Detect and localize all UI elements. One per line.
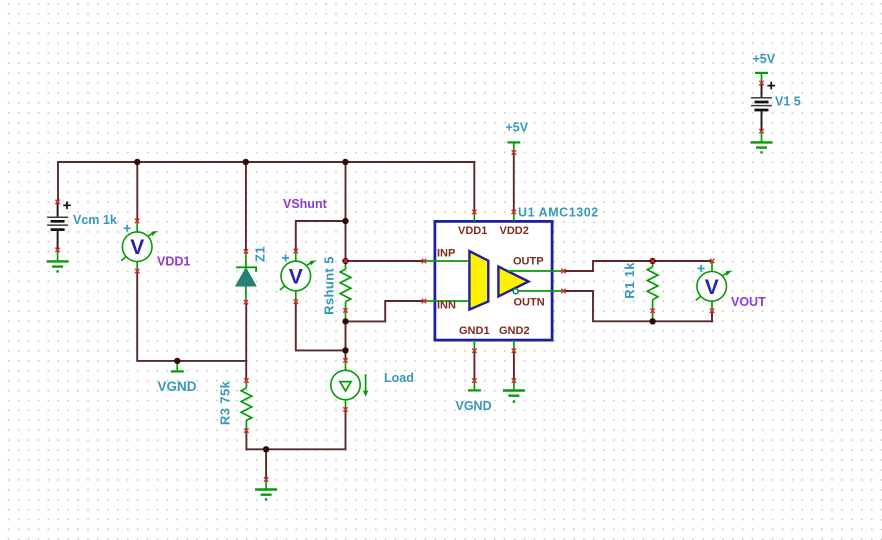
node VGND tap	[174, 358, 180, 364]
svg-text:VGND: VGND	[158, 379, 197, 394]
svg-text:R3 75k: R3 75k	[218, 380, 233, 425]
wire rail to Z1	[245, 162, 247, 251]
wire node INN jog	[346, 301, 425, 321]
op-amp input stage trapezoid of U1	[469, 251, 488, 310]
wire Z1 to R3	[245, 302, 247, 380]
svg-text:Vcm 1k: Vcm 1k	[73, 213, 117, 227]
+5V jumper above V1	[755, 73, 768, 83]
pin VDD1 stub	[473, 212, 475, 221]
wire Rshunt bottom to Load	[345, 321, 347, 360]
node VShunt tap	[342, 218, 348, 224]
battery V1	[751, 82, 775, 131]
wire U1 GND2 to ground	[513, 351, 515, 381]
pin INP stub	[424, 260, 469, 262]
pin OUTP stub	[508, 270, 564, 272]
pin GND2 stub	[513, 340, 515, 350]
battery Vcm	[47, 202, 71, 250]
wire node OUTN	[564, 291, 713, 321]
wire rail to VDD1 meter	[136, 162, 138, 221]
node INN	[342, 318, 348, 324]
IC U1 AMC1302 body	[435, 221, 552, 340]
wire ground stub at bottom	[265, 449, 267, 479]
wire VShunt top tap	[296, 221, 346, 251]
svg-text:VShunt: VShunt	[283, 197, 328, 211]
voltmeter VOUT	[696, 262, 733, 311]
VGND jumper left	[171, 361, 184, 371]
wire R3 bottom	[245, 431, 247, 450]
wire VShunt bottom return	[296, 302, 346, 351]
ground below R3	[255, 480, 277, 501]
VGND jumper below GND1	[468, 381, 481, 390]
svg-text:V: V	[130, 236, 144, 259]
pin INN stub	[424, 300, 469, 302]
svg-text:GND1: GND1	[459, 325, 490, 337]
node INP	[342, 258, 348, 264]
svg-text:OUTN: OUTN	[514, 297, 545, 309]
wire VOUT bottom stub	[711, 311, 713, 322]
wire Load bottom to R3	[246, 409, 345, 449]
node OUTP-R1	[649, 258, 655, 264]
svg-text:GND2: GND2	[499, 325, 530, 337]
ground below Vcm	[47, 250, 69, 272]
pin VDD2 stub	[513, 212, 515, 221]
svg-text:R1 1k: R1 1k	[622, 262, 637, 299]
svg-text:VGND: VGND	[456, 399, 492, 413]
node rail-Z1	[243, 159, 249, 165]
voltmeter VShunt	[280, 251, 317, 301]
svg-text:INN: INN	[437, 300, 456, 312]
svg-text:VDD2: VDD2	[500, 225, 529, 237]
wire VDD1 meter to VGND rail	[137, 271, 246, 361]
svg-text:+5V: +5V	[753, 52, 776, 66]
wire top VDD1 rail	[58, 161, 474, 163]
wire node INP	[346, 260, 425, 262]
inverting bubble on OUTN	[513, 289, 518, 294]
svg-text:VOUT: VOUT	[731, 295, 766, 309]
wire rail to Vcm battery	[57, 162, 59, 202]
current source Load	[331, 361, 369, 409]
svg-text:VDD1: VDD1	[157, 255, 190, 269]
svg-text:U1 AMC1302: U1 AMC1302	[518, 206, 599, 220]
svg-text:Load: Load	[384, 371, 414, 385]
node OUTN-R1	[649, 318, 655, 324]
node bottom ground	[263, 446, 269, 452]
pin OUTN stub	[518, 290, 563, 292]
pin GND1 stub	[473, 340, 475, 350]
wire rail to U1 VDD1 pin	[473, 162, 475, 212]
node rail-VDD1meter	[134, 159, 140, 165]
svg-text:Z1: Z1	[252, 246, 267, 262]
svg-text:+5V: +5V	[506, 121, 529, 135]
junction node dots	[134, 159, 656, 453]
resistor R1	[647, 261, 658, 321]
voltmeter VDD1	[121, 222, 158, 271]
svg-text:V1 5: V1 5	[775, 95, 801, 109]
svg-text:VDD1: VDD1	[458, 225, 487, 237]
svg-text:V: V	[705, 276, 719, 299]
wire +5V to U1 VDD2 pin	[513, 152, 515, 212]
output buffer triangle of U1	[498, 267, 528, 297]
resistor Rshunt	[340, 261, 351, 321]
svg-text:Rshunt 5: Rshunt 5	[322, 256, 337, 315]
svg-text:V: V	[289, 266, 303, 289]
wire U1 GND1 to VGND jumper	[473, 351, 475, 381]
terminal cross marks	[55, 81, 763, 482]
wire rail to Rshunt column	[345, 162, 347, 261]
wire node OUTP	[564, 261, 713, 271]
svg-text:INP: INP	[437, 248, 455, 260]
svg-text:OUTP: OUTP	[513, 256, 544, 268]
node Load top	[342, 347, 348, 353]
node rail-Rshunt	[342, 159, 348, 165]
ground below GND2	[503, 381, 525, 403]
ground below V1	[751, 132, 773, 154]
+5V jumper above U1	[507, 142, 520, 152]
zener diode Z1	[236, 252, 256, 302]
resistor R3	[241, 381, 252, 430]
